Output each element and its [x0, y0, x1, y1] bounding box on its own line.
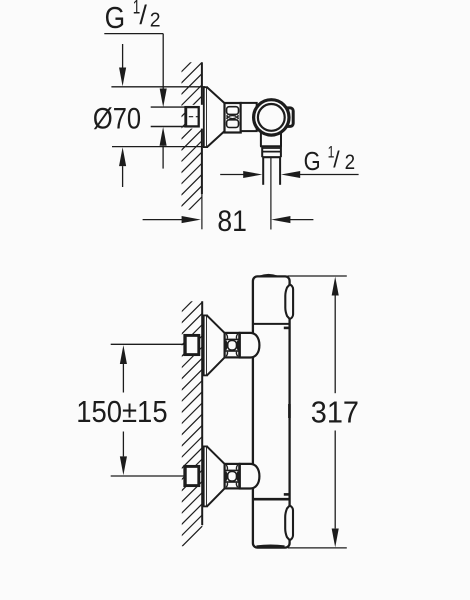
nipple bottom edge extension line — [151, 126, 186, 128]
svg-text:2: 2 — [345, 151, 356, 174]
threaded section body — [225, 103, 241, 133]
thread waist oval — [229, 116, 237, 119]
Ø70 arrowhead pointing up — [119, 147, 126, 166]
escutcheon base plate (top connection) — [204, 315, 207, 375]
escutcheon cone bottom slope — [207, 131, 225, 147]
hose G1/2 right arrowhead — [281, 171, 300, 178]
svg-text:/: / — [139, 0, 147, 30]
wall (top view) hatching — [172, 41, 212, 227]
dimension Ø70 bottom extension line — [112, 146, 205, 148]
threaded nipple (top view) — [186, 107, 199, 126]
hose G1/2 left arrowhead — [243, 171, 262, 178]
shower hose right edge — [279, 157, 281, 185]
escutcheon cone top slope — [207, 87, 225, 147]
leader vertical stem — [162, 34, 164, 89]
escutcheon cone (top connection) — [207, 315, 225, 375]
label G1/2 (hose) — [304, 142, 356, 176]
handle tab behind valve circle — [280, 108, 293, 127]
nipple dashed centerline — [189, 116, 200, 118]
hex nut chamfer arcs — [226, 465, 227, 470]
thread waist left lens — [226, 115, 229, 119]
bottom edge thick arc — [257, 544, 285, 547]
hose centerline extension — [270, 157, 272, 229]
escutcheon base plate (top view) — [204, 87, 207, 147]
hex nut (bottom connection) — [225, 464, 240, 489]
stem below up-arrow — [162, 146, 164, 169]
317 bottom arrowhead — [332, 529, 339, 548]
top cap separation line — [253, 323, 290, 325]
hex nut centre facet — [228, 341, 237, 351]
nipple top edge extension line — [151, 106, 186, 108]
connection cup into body (top connection) — [240, 333, 260, 358]
shower hose left edge — [262, 157, 264, 185]
connection cup into body (bottom connection) — [240, 464, 260, 489]
317 upper stem — [334, 296, 336, 394]
150 lower arrowhead — [120, 456, 127, 475]
bottom inlet connection group — [111, 446, 260, 506]
nipple wall clearance (white) — [187, 105, 203, 129]
escutcheon base plate (bottom connection) — [204, 446, 207, 506]
150 upper stem — [122, 364, 124, 393]
nipple inner left edge — [185, 107, 187, 126]
dimension 317 top extension line — [288, 275, 347, 277]
hose G1/2 right line — [300, 174, 359, 176]
dimension 81 left line — [143, 219, 182, 221]
valve neck below circle — [260, 130, 262, 146]
hex nut centre facet — [228, 472, 237, 482]
svg-text:150±15: 150±15 — [76, 395, 167, 429]
dimension G1/2 leader line (top) — [104, 33, 163, 35]
wall face extension line down to 81 dimension — [201, 194, 203, 229]
81 left arrowhead — [182, 216, 201, 223]
bottom cap tick mark — [284, 493, 290, 496]
Ø70 upper arrow stem — [122, 44, 124, 68]
Ø70 lower arrow stem — [122, 166, 124, 187]
escutcheon cone (bottom connection) — [207, 446, 225, 506]
top knob (temperature handle grip) — [285, 285, 293, 320]
81 right arrowhead — [271, 216, 290, 223]
arrowhead down to nipple top — [160, 89, 167, 108]
body top dome bump — [260, 275, 278, 277]
hex nut (top connection) — [225, 333, 240, 358]
top cap tick mark — [284, 327, 290, 330]
150 lower stem — [122, 432, 124, 457]
svg-text:/: / — [333, 146, 340, 172]
thread crest lower — [227, 120, 239, 128]
top inlet connection group — [111, 315, 260, 375]
hex nut chamfer arcs — [226, 334, 227, 339]
317 lower stem — [334, 431, 336, 529]
317 bottom extension line — [288, 547, 347, 549]
label G1/2 (top) — [105, 0, 161, 35]
dimension Ø70 top extension line — [111, 86, 205, 88]
thread waist right lens — [237, 115, 240, 119]
arrowhead up to nipple bottom — [160, 127, 167, 146]
wall (front view) hatching — [172, 281, 212, 556]
wall face line (top view) — [201, 62, 203, 106]
svg-text:Ø70: Ø70 — [93, 102, 141, 135]
317 top arrowhead — [332, 277, 339, 296]
dimension 150±15 upper arrowhead — [120, 345, 127, 364]
thermostat body cylinder — [253, 276, 290, 547]
81 right line — [290, 219, 314, 221]
valve body circle (inner) — [258, 104, 285, 131]
nipple (bottom connection) — [185, 466, 199, 485]
svg-text:81: 81 — [217, 205, 247, 238]
svg-text:G: G — [304, 146, 321, 176]
Ø70 arrowhead pointing down — [119, 68, 126, 87]
bottom knob (flow handle grip) — [285, 506, 293, 540]
svg-text:G: G — [105, 0, 126, 35]
bottom cap separation line — [253, 498, 290, 501]
valve body circle (outer) — [254, 100, 289, 135]
svg-text:2: 2 — [150, 10, 161, 32]
150 dimension bottom extension line — [111, 475, 186, 477]
wall face line (front view) — [201, 301, 203, 525]
hose nut below valve — [261, 146, 263, 157]
dimension G1/2 (hose) left line — [220, 174, 244, 176]
thread crest upper — [227, 107, 239, 115]
neck bottom flange line — [260, 145, 282, 147]
valve inlet plain section — [241, 103, 257, 131]
nipple inner left edge — [185, 466, 187, 485]
150 dimension top extension line — [111, 343, 186, 345]
nipple inner left edge — [185, 335, 187, 354]
right edge thick segment — [288, 404, 291, 418]
nipple (top connection) — [185, 335, 199, 354]
svg-text:317: 317 — [311, 395, 359, 429]
